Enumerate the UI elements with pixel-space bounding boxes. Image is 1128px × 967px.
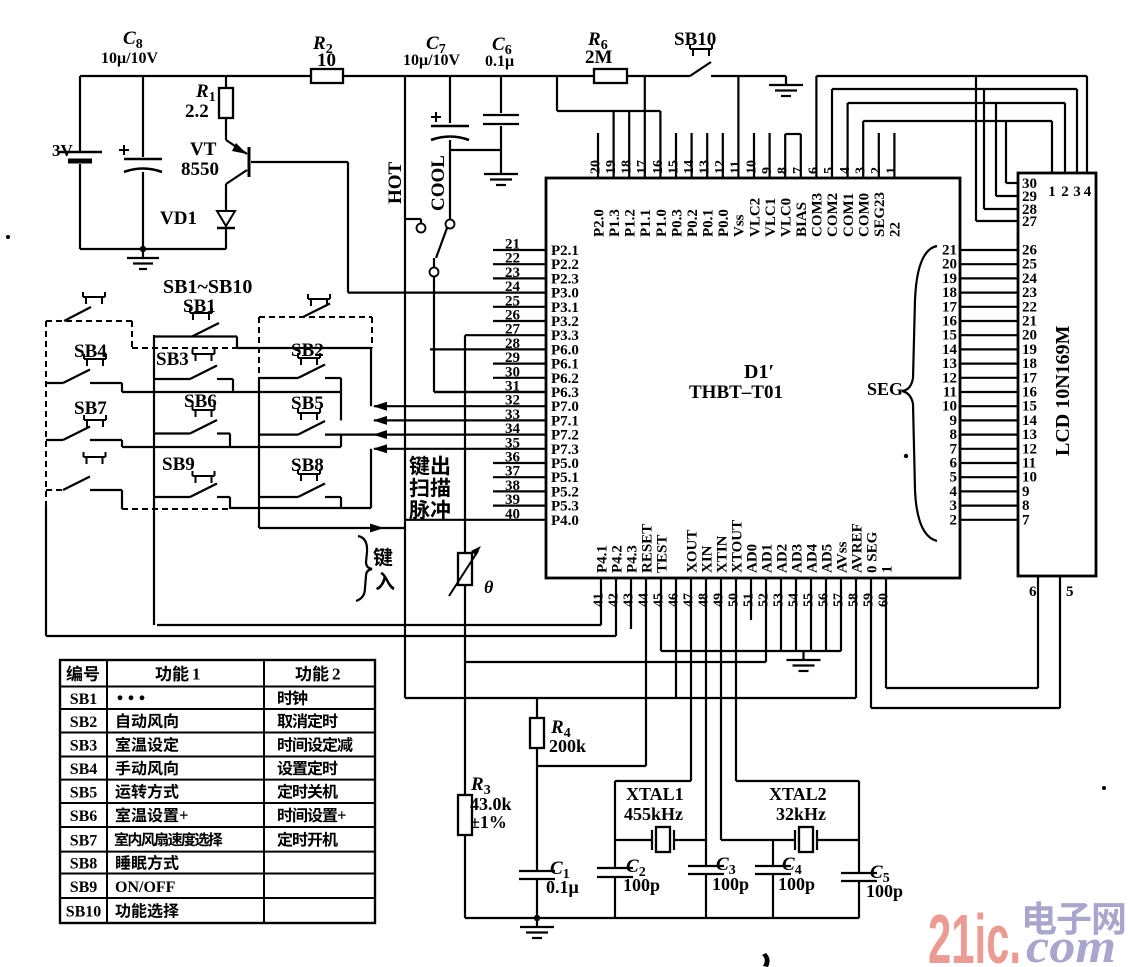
svg-text:56: 56 <box>817 593 832 607</box>
wire VLC0-BIAS bracket <box>784 134 786 178</box>
wire key row 2 jogs <box>121 383 123 392</box>
svg-text:XIN: XIN <box>700 545 716 573</box>
wire COM2 to LCD <box>831 89 833 178</box>
svg-text:com: com <box>1026 920 1116 967</box>
svg-text:60: 60 <box>877 593 892 607</box>
U1 left pin numbers <box>505 237 521 523</box>
svg-text:3: 3 <box>853 167 868 174</box>
table row SB9 <box>70 879 176 896</box>
ground sym analog <box>787 651 821 671</box>
svg-text:SB9: SB9 <box>70 879 98 896</box>
resistor R2 10 <box>311 33 343 83</box>
svg-text:10μ/10V: 10μ/10V <box>403 52 461 69</box>
LCD pin 5 wire to U1 pin59 <box>1059 576 1061 708</box>
wire +3V top rail <box>80 75 311 77</box>
svg-text:3V: 3V <box>52 141 74 160</box>
wire P3.3 row (to thermistor) <box>465 334 546 336</box>
table row SB6 <box>70 806 347 825</box>
wire key row 4 jogs <box>121 490 123 509</box>
svg-text:55: 55 <box>802 593 817 607</box>
svg-text:42: 42 <box>607 593 622 607</box>
wire C7 to C6 ground tie <box>450 149 501 151</box>
svg-text:AD5: AD5 <box>820 544 836 573</box>
wire AD2-AD5 to ground bus <box>781 578 826 651</box>
svg-text:SB9: SB9 <box>162 454 195 475</box>
wire XTIN to XTAL2 <box>720 578 722 840</box>
crystal XTAL1 455kHz <box>615 784 706 852</box>
svg-text:AD2: AD2 <box>775 544 791 573</box>
svg-text:SB5: SB5 <box>70 784 98 801</box>
switch SB10 <box>674 29 716 76</box>
svg-text:COM3: COM3 <box>810 193 826 237</box>
resistor R6 2M <box>585 29 627 83</box>
svg-text:P0.0: P0.0 <box>716 209 732 237</box>
svg-text:51: 51 <box>742 593 757 607</box>
pin stub P0.2 <box>690 133 692 178</box>
svg-text:46: 46 <box>667 593 682 607</box>
wire AVREF to key bus (bus E) <box>855 578 857 698</box>
svg-text:2M: 2M <box>585 47 613 68</box>
svg-text:P1.2: P1.2 <box>623 209 639 237</box>
svg-text:43: 43 <box>622 593 637 607</box>
watermark 21ic.com logo <box>928 900 1124 967</box>
svg-text:VD1: VD1 <box>160 208 197 229</box>
switch HOT contact <box>385 161 426 232</box>
wire Vss drop <box>737 76 739 178</box>
wire COM3 to LCD <box>815 76 817 178</box>
battery GB 3V <box>52 76 102 249</box>
svg-text:XTAL1: XTAL1 <box>626 784 684 804</box>
U1 bottom pin numbers 41-60 <box>592 593 892 607</box>
svg-text:SB7: SB7 <box>74 398 107 419</box>
U1 right pin numbers 21..2 <box>942 243 958 529</box>
svg-text:AD0: AD0 <box>745 544 761 573</box>
svg-text:VLC0: VLC0 <box>779 198 795 237</box>
svg-text:20: 20 <box>589 160 604 174</box>
svg-text:SB5: SB5 <box>291 393 324 414</box>
svg-text:BIAS: BIAS <box>794 202 810 237</box>
wire pin46 to bus <box>675 578 677 698</box>
svg-text:SB6: SB6 <box>184 391 217 412</box>
switch SB8 <box>259 455 341 497</box>
svg-text:1: 1 <box>885 167 900 174</box>
capacitor C7 10u/10V <box>403 33 469 219</box>
wire COM2 branch to LCD left pin <box>983 89 985 209</box>
switch SB5 <box>259 393 374 435</box>
svg-text:AD3: AD3 <box>790 544 806 573</box>
svg-text:18: 18 <box>620 160 635 174</box>
svg-text:19: 19 <box>604 160 619 174</box>
wire VT base to P3.0 <box>347 162 349 293</box>
svg-text:11: 11 <box>729 161 744 174</box>
svg-text:P4.2: P4.2 <box>610 545 626 573</box>
pin stub P0.3 <box>675 133 677 178</box>
wire P1.x bus <box>557 110 660 112</box>
wire key/reset bus E <box>405 697 856 699</box>
svg-text:0.1μ: 0.1μ <box>546 877 579 897</box>
wire TEST line <box>660 578 662 651</box>
svg-text:54: 54 <box>787 593 802 607</box>
pin stub VLC1 <box>768 133 770 178</box>
table row SB3 <box>70 737 353 755</box>
svg-text:XTIN: XTIN <box>715 535 731 573</box>
svg-text:7: 7 <box>1022 512 1030 528</box>
svg-text:44: 44 <box>637 593 652 607</box>
wire COM0 to LCD <box>862 121 864 178</box>
svg-text:100p: 100p <box>866 881 903 901</box>
switch SB1 <box>154 296 237 337</box>
wire P6.3 row stub <box>434 391 546 393</box>
U1 top pin numbers 20..1 <box>589 160 900 174</box>
switch (unlabeled bottom-left) <box>46 452 122 490</box>
svg-text:COM0: COM0 <box>856 193 872 237</box>
svg-text:14: 14 <box>682 160 697 174</box>
svg-text:Vss: Vss <box>732 214 748 237</box>
svg-text:RESET: RESET <box>640 524 656 573</box>
U1 right pins / SEG lines to LCD <box>960 250 1018 520</box>
wire COOL common to P6.3 <box>433 277 435 392</box>
svg-text:SB8: SB8 <box>70 856 98 873</box>
svg-text:9: 9 <box>760 167 775 174</box>
pin stub P0.1 <box>706 133 708 178</box>
LCD module 10N169M <box>1018 173 1096 576</box>
resistor R3 43.0k <box>458 774 512 918</box>
svg-text:ON/OFF: ON/OFF <box>115 879 176 896</box>
wire COM3 branch to LCD left pin <box>975 76 977 221</box>
LCD left pin numbers 30-27 <box>1022 176 1038 230</box>
U1 top pin names <box>592 192 904 237</box>
svg-text:SB10: SB10 <box>674 29 716 50</box>
svg-text:COM1: COM1 <box>841 193 857 237</box>
svg-text:P4.0: P4.0 <box>551 513 579 529</box>
wire SB column left edge <box>258 379 260 528</box>
svg-text:45: 45 <box>652 593 667 607</box>
svg-text:θ: θ <box>484 577 494 597</box>
thermistor Rt <box>449 335 494 795</box>
LCD left pin numbers 26..7 <box>1022 243 1038 529</box>
svg-text:2.2: 2.2 <box>185 101 209 122</box>
svg-text:17: 17 <box>635 160 650 174</box>
svg-text:P2.0: P2.0 <box>592 209 608 237</box>
key matrix dashed box edges <box>258 317 260 379</box>
wire key column middle <box>153 335 155 625</box>
ground sym bottom-left <box>127 249 159 269</box>
capacitor C5 100p <box>841 862 903 901</box>
capacitor C4 100p <box>755 840 815 918</box>
svg-text:XTOUT: XTOUT <box>730 520 746 573</box>
svg-text:4: 4 <box>1084 184 1092 200</box>
svg-text:6: 6 <box>807 167 822 174</box>
wire AD1 to thermistor <box>765 578 767 662</box>
svg-text:4: 4 <box>838 167 853 174</box>
wire rail drop to P1 bus <box>556 76 558 111</box>
svg-text:52: 52 <box>757 593 772 607</box>
wire key column left (dashed) <box>45 321 47 505</box>
svg-text:100p: 100p <box>623 875 660 895</box>
svg-text:SB4: SB4 <box>70 761 98 778</box>
node C1/ground junction <box>534 915 540 921</box>
svg-text:200k: 200k <box>549 736 586 756</box>
svg-text:SB1: SB1 <box>183 296 216 317</box>
wire COM0 branch to LCD left pin <box>1005 121 1007 183</box>
svg-text:2: 2 <box>332 665 341 684</box>
svg-text:P1.0: P1.0 <box>654 209 670 237</box>
wire bottom-left return <box>80 248 226 250</box>
switch SB3 <box>154 349 233 379</box>
svg-text:10: 10 <box>317 50 336 71</box>
diode VD1 <box>160 208 235 249</box>
table row SB7 <box>70 832 338 850</box>
switch SB2 <box>259 340 341 378</box>
capacitor C6 0.1u <box>483 34 519 165</box>
svg-text:15: 15 <box>666 160 681 174</box>
wire key scan row P7.2 with arrow <box>374 434 546 436</box>
wire XIN / C3 branch <box>705 578 707 866</box>
switch (unlabeled top-right) <box>303 294 330 317</box>
svg-text:47: 47 <box>682 593 697 607</box>
svg-text:50: 50 <box>727 593 742 607</box>
pin stub P2.0 <box>597 133 599 178</box>
wire HOT line / key-in vertical <box>404 76 406 698</box>
table row SB2 <box>70 713 338 731</box>
resistor R4 200k <box>530 698 586 766</box>
svg-text:AVss: AVss <box>835 541 851 573</box>
transistor VT 8550 (PNP) <box>181 139 348 211</box>
svg-text:0 SEG: 0 SEG <box>865 531 881 573</box>
svg-text:SB3: SB3 <box>156 349 189 370</box>
svg-text:32kHz: 32kHz <box>776 804 826 824</box>
svg-text:43.0k: 43.0k <box>470 794 512 814</box>
svg-text:100p: 100p <box>778 874 815 894</box>
svg-text:57: 57 <box>832 593 847 607</box>
wire XOUT to XTAL1 <box>690 578 692 781</box>
table row SB4 <box>70 760 338 778</box>
svg-text:HOT: HOT <box>385 161 406 204</box>
svg-text:53: 53 <box>772 593 787 607</box>
capacitor C1 0.1u <box>519 766 579 918</box>
table row SB1 <box>70 690 308 707</box>
svg-text:P1.1: P1.1 <box>638 209 654 237</box>
svg-text:2: 2 <box>869 167 884 174</box>
switch SB6 <box>154 391 230 434</box>
wire dashed jog to SB1 row <box>131 321 133 348</box>
table SB functions <box>60 660 375 923</box>
svg-text:TEST: TEST <box>655 535 671 573</box>
wire bus to P1.1 / R6 node <box>644 76 646 178</box>
ground sym main bottom <box>520 918 554 938</box>
svg-text:100p: 100p <box>712 874 749 894</box>
switch SB4 <box>46 341 122 383</box>
svg-text:AVREF: AVREF <box>850 523 866 573</box>
wire key scan row P7.3 with arrow <box>374 448 546 450</box>
label key-in with brace <box>356 536 395 601</box>
resistor R1 2.2 <box>185 76 233 140</box>
svg-text:SB1: SB1 <box>70 691 98 708</box>
wire bottom ground bus <box>465 917 859 919</box>
svg-text:SB2: SB2 <box>70 714 98 731</box>
svg-text:13: 13 <box>698 160 713 174</box>
svg-text:SB10: SB10 <box>66 904 102 921</box>
svg-text:SEG: SEG <box>867 379 903 399</box>
svg-text:SB4: SB4 <box>74 341 107 362</box>
U1 left pin names <box>551 243 579 529</box>
svg-text:P4.1: P4.1 <box>595 545 611 573</box>
pin stub SEG22 <box>893 133 895 178</box>
svg-text:6: 6 <box>1029 584 1037 600</box>
svg-text:1: 1 <box>880 566 896 574</box>
wire XTOUT to XTAL2 right <box>735 578 737 781</box>
table row SB8 <box>70 855 179 873</box>
wire SB1 row to scan line 1 <box>236 337 238 349</box>
svg-text:1: 1 <box>192 665 201 684</box>
svg-text:AD4: AD4 <box>805 543 821 573</box>
pin stub AD0 <box>750 578 752 620</box>
svg-text:10μ/10V: 10μ/10V <box>101 50 159 67</box>
svg-text:+: + <box>179 806 189 825</box>
svg-text:58: 58 <box>847 593 862 607</box>
svg-text:P0.1: P0.1 <box>701 209 717 237</box>
label key-out scan pulse <box>409 456 450 520</box>
svg-text:10: 10 <box>744 160 759 174</box>
capacitor C8 10u/10V <box>101 28 162 249</box>
svg-text:12: 12 <box>713 160 728 174</box>
svg-text:41: 41 <box>592 593 607 607</box>
ground sym under C6 <box>484 165 518 185</box>
wire SB10 to ground <box>711 75 786 77</box>
ground sym top-right <box>769 76 803 96</box>
svg-text:THBT–T01: THBT–T01 <box>689 382 783 403</box>
stray ink mark <box>762 953 770 967</box>
svg-text:LCD 10N169M: LCD 10N169M <box>1052 325 1074 456</box>
SEG brace <box>902 246 937 541</box>
crystal XTAL2 32kHz <box>721 784 859 852</box>
svg-text:P4.3: P4.3 <box>625 545 641 573</box>
switch COOL (SPDT lever) <box>428 155 455 276</box>
op-amp U1 IC D1 THBT-T01 <box>546 178 960 578</box>
wire bus to P1.0 <box>659 111 661 178</box>
wire key scan row P7.0 with arrow <box>374 405 546 407</box>
svg-text:8: 8 <box>776 167 791 174</box>
scan speck dots <box>904 454 908 458</box>
svg-text:P1.3: P1.3 <box>607 209 623 237</box>
svg-text:2: 2 <box>950 512 958 528</box>
wire P4.0 row with arrow (key input) <box>259 527 405 529</box>
wire bus to P1.2 <box>628 111 630 178</box>
wire key scan row P7.1 with arrow <box>374 419 546 421</box>
wire P6.0 row <box>430 348 546 350</box>
svg-text:59: 59 <box>862 593 877 607</box>
svg-text:2: 2 <box>1061 184 1069 200</box>
svg-text:455kHz: 455kHz <box>624 804 683 824</box>
switch SB9 <box>154 454 230 497</box>
LCD pin 6 wire to U1 pin60 <box>1037 576 1039 688</box>
svg-text:0.1μ: 0.1μ <box>485 53 514 70</box>
svg-text:7: 7 <box>791 167 806 174</box>
svg-text:3: 3 <box>1073 184 1081 200</box>
svg-text:±1%: ±1% <box>470 812 507 832</box>
wire bus to P1.3 <box>612 111 614 178</box>
svg-text:AD1: AD1 <box>760 544 776 573</box>
svg-text:8550: 8550 <box>181 159 219 180</box>
svg-text:+: + <box>337 806 347 825</box>
svg-text:COOL: COOL <box>428 155 449 211</box>
svg-text:SB2: SB2 <box>291 340 324 361</box>
U1 bottom pin names <box>595 520 896 573</box>
pin stub P0.0 <box>722 133 724 178</box>
svg-text:VT: VT <box>190 139 217 160</box>
wire COM1 to LCD <box>846 103 848 178</box>
pin stub VLC2 <box>753 133 755 178</box>
svg-text:1: 1 <box>1048 184 1056 200</box>
table headers <box>66 665 340 684</box>
node junction at C8/ground <box>140 246 146 252</box>
svg-text:SB6: SB6 <box>70 808 98 825</box>
svg-text:SB3: SB3 <box>70 738 98 755</box>
svg-text:22: 22 <box>888 222 904 237</box>
svg-text:49: 49 <box>712 593 727 607</box>
U1 left pin stubs 21-40 <box>493 250 546 506</box>
svg-text:P0.3: P0.3 <box>669 209 685 237</box>
svg-text:5: 5 <box>1066 584 1074 600</box>
wire key row 3 jogs <box>121 440 123 447</box>
svg-text:XTAL2: XTAL2 <box>769 784 827 804</box>
wire P4.2 to key matrix column (line B) <box>615 578 617 636</box>
svg-text:D1′: D1′ <box>744 361 774 383</box>
svg-text:48: 48 <box>697 593 712 607</box>
capacitor C3 100p <box>688 854 749 894</box>
svg-text:XOUT: XOUT <box>685 530 701 573</box>
svg-text:21ic.: 21ic. <box>928 900 1021 967</box>
switch SB7 <box>46 398 122 440</box>
svg-text:VLC1: VLC1 <box>763 198 779 237</box>
svg-text:5: 5 <box>822 167 837 174</box>
svg-text:SB1~SB10: SB1~SB10 <box>163 276 252 298</box>
wire COM1 branch to LCD left pin <box>995 103 997 196</box>
svg-text:VLC2: VLC2 <box>747 198 763 237</box>
table row SB5 <box>70 784 338 802</box>
svg-text:COM2: COM2 <box>825 193 841 237</box>
svg-text:SB8: SB8 <box>291 455 324 476</box>
wire RESET to R4 <box>645 578 647 766</box>
table row SB10 <box>66 903 179 921</box>
wire P3.0 row (from VT base) <box>348 292 546 294</box>
LCD top pin numbers 1 2 3 4 <box>1048 184 1092 200</box>
switch (unlabeled top-left) <box>46 292 132 321</box>
svg-text:P0.2: P0.2 <box>685 209 701 237</box>
svg-text:SEG23: SEG23 <box>872 192 888 237</box>
pin stub SEG23 <box>878 133 880 178</box>
svg-text:SB7: SB7 <box>70 832 98 849</box>
svg-text:27: 27 <box>1022 214 1038 230</box>
capacitor C2 100p <box>597 856 660 895</box>
pin stub P4.3 <box>630 578 632 629</box>
wire P4.1 to key matrix column (line A) <box>600 578 602 625</box>
svg-text:16: 16 <box>651 160 666 174</box>
